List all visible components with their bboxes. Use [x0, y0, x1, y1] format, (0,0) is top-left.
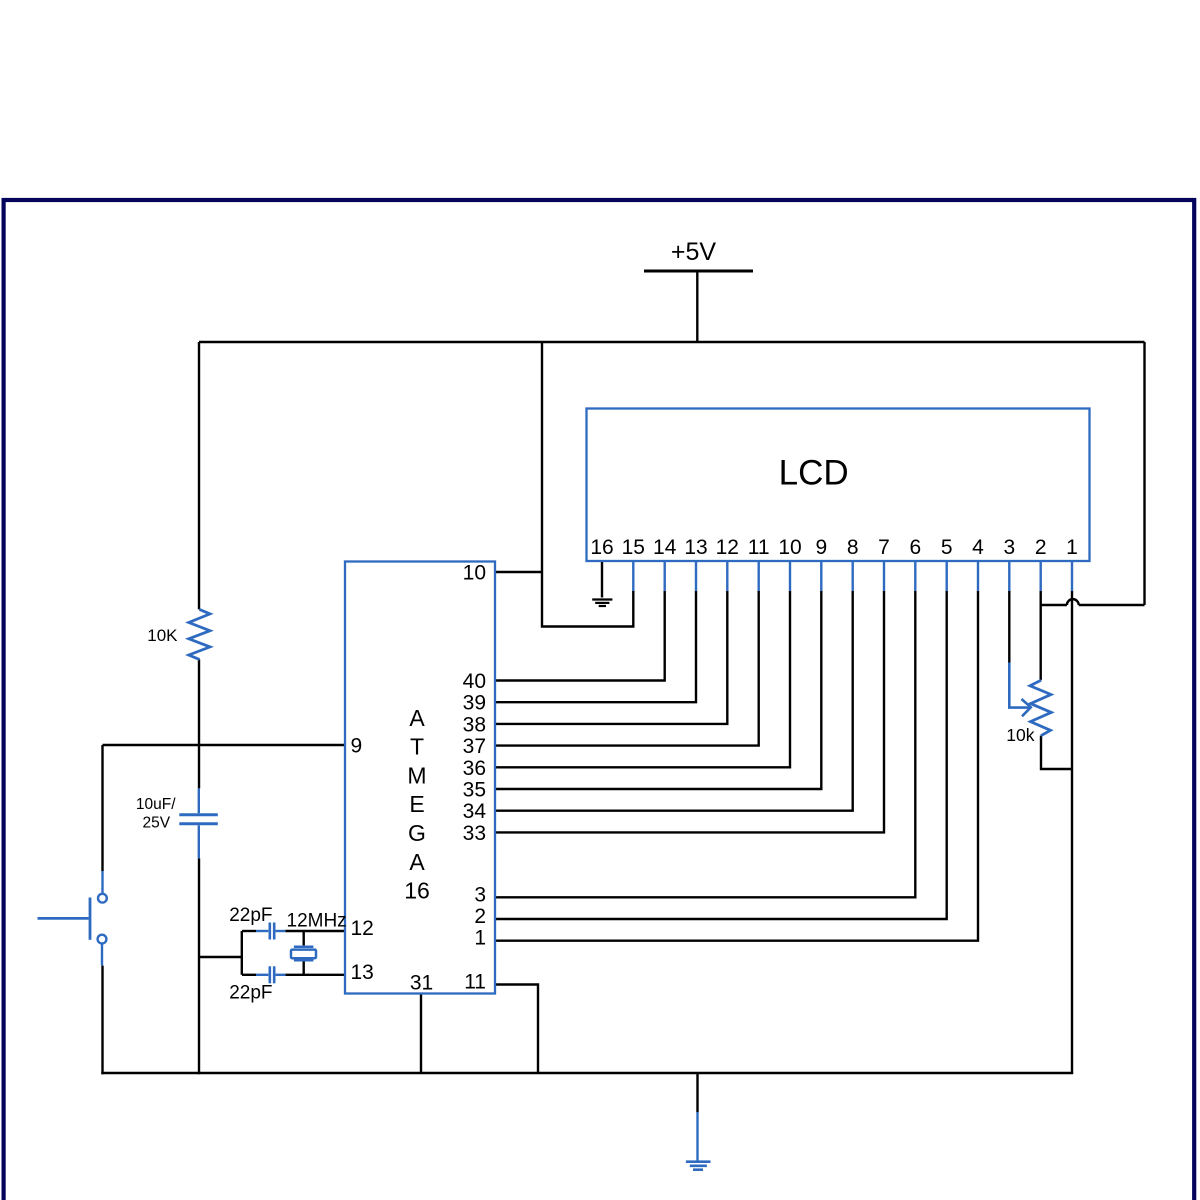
svg-text:6: 6 — [909, 536, 921, 559]
svg-text:15: 15 — [622, 536, 645, 559]
svg-text:34: 34 — [463, 800, 487, 823]
svg-text:16: 16 — [590, 536, 613, 559]
svg-text:22pF: 22pF — [229, 983, 272, 1004]
svg-text:A: A — [409, 849, 425, 875]
svg-text:4: 4 — [972, 536, 984, 559]
svg-text:11: 11 — [464, 971, 486, 994]
svg-text:10k: 10k — [1006, 725, 1034, 745]
svg-text:+5V: +5V — [671, 238, 717, 266]
svg-text:14: 14 — [653, 536, 677, 559]
svg-text:36: 36 — [463, 757, 486, 780]
svg-text:E: E — [409, 791, 424, 817]
svg-text:35: 35 — [463, 779, 486, 802]
svg-text:LCD: LCD — [779, 453, 849, 492]
svg-text:37: 37 — [463, 735, 486, 758]
svg-text:22pF: 22pF — [229, 905, 272, 926]
svg-text:T: T — [410, 734, 424, 760]
svg-text:1: 1 — [1066, 536, 1078, 559]
svg-text:13: 13 — [351, 961, 374, 984]
svg-text:3: 3 — [1003, 536, 1015, 559]
svg-text:7: 7 — [878, 536, 890, 559]
svg-text:G: G — [408, 820, 426, 846]
svg-text:10: 10 — [463, 562, 486, 585]
svg-text:12: 12 — [716, 536, 739, 559]
svg-text:8: 8 — [847, 536, 859, 559]
svg-text:40: 40 — [463, 670, 486, 693]
svg-text:25V: 25V — [143, 814, 171, 831]
svg-text:13: 13 — [684, 536, 707, 559]
svg-text:10uF/: 10uF/ — [136, 796, 176, 813]
svg-text:10: 10 — [778, 536, 801, 559]
svg-text:2: 2 — [474, 905, 486, 928]
svg-text:11: 11 — [748, 536, 770, 559]
svg-text:3: 3 — [474, 883, 486, 906]
svg-text:12: 12 — [351, 917, 374, 940]
svg-text:9: 9 — [815, 536, 827, 559]
svg-text:16: 16 — [404, 878, 430, 904]
svg-text:39: 39 — [463, 692, 486, 715]
svg-text:31: 31 — [410, 972, 433, 995]
svg-text:1: 1 — [474, 927, 486, 950]
svg-text:9: 9 — [351, 735, 363, 758]
svg-text:A: A — [409, 705, 425, 731]
svg-text:5: 5 — [941, 536, 953, 559]
svg-text:M: M — [407, 762, 426, 788]
svg-text:10K: 10K — [147, 626, 178, 645]
svg-text:38: 38 — [463, 713, 486, 736]
svg-text:2: 2 — [1035, 536, 1047, 559]
svg-text:12MHz: 12MHz — [287, 911, 347, 932]
svg-text:33: 33 — [463, 822, 486, 845]
